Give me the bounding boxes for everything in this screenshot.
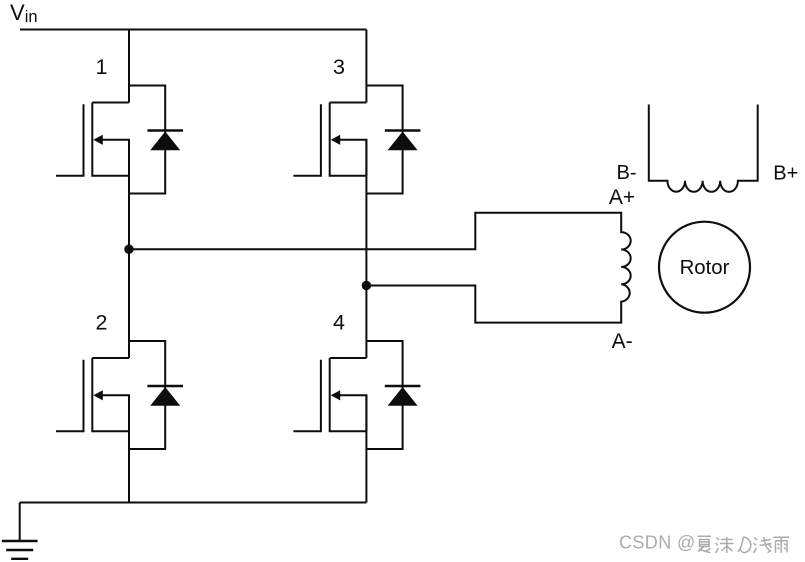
watermark glyph No [738, 537, 751, 553]
rotor circle [659, 222, 750, 313]
svg-text:Rotor: Rotor [680, 257, 730, 279]
watermark glyph Qian [754, 537, 772, 553]
wire Vin top rail [20, 29, 366, 31]
transistor Q2 with body diode [56, 341, 183, 449]
node junction dot A- [362, 281, 371, 290]
svg-text:1: 1 [96, 55, 108, 79]
svg-text:2: 2 [96, 311, 108, 335]
wire drain Q3 [365, 30, 367, 103]
wire ground rail [20, 502, 367, 504]
svg-text:A+: A+ [609, 186, 635, 209]
wire drain Q1 [128, 30, 130, 103]
svg-text:A-: A- [612, 330, 633, 353]
winding phase B [649, 105, 758, 192]
wire source Q3 to drain Q4 [365, 140, 367, 358]
transistor Q3 with body diode [293, 86, 420, 194]
svg-text:3: 3 [333, 55, 345, 79]
transistor Q1 with body diode [56, 86, 183, 194]
wire source Q1 to drain Q2 [128, 140, 130, 358]
svg-text:4: 4 [333, 311, 345, 335]
wire source Q2 to ground rail [128, 395, 130, 502]
watermark glyph Mo [716, 537, 734, 553]
svg-text:B+: B+ [773, 162, 798, 184]
wire source Q4 to ground rail [365, 395, 367, 502]
svg-text:Vin: Vin [10, 0, 38, 26]
transistor Q4 with body diode [293, 341, 420, 449]
svg-text:CSDN @: CSDN @ [619, 533, 696, 553]
ground [2, 503, 38, 559]
wire + winding phase A [129, 213, 631, 323]
watermark glyph Yu [774, 537, 790, 553]
svg-text:B-: B- [617, 162, 637, 184]
watermark glyph Xia [698, 536, 712, 552]
node junction dot A+ [124, 245, 133, 254]
